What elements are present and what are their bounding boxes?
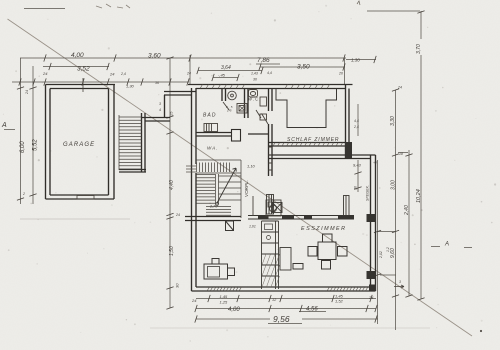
svg-text:-,45: -,45 <box>218 73 226 78</box>
svg-text:1,45: 1,45 <box>220 294 229 299</box>
svg-text:6,00: 6,00 <box>20 141 26 153</box>
svg-text:24: 24 <box>109 72 115 77</box>
svg-text:2,40: 2,40 <box>404 205 410 216</box>
svg-text:9,43: 9,43 <box>353 163 362 168</box>
svg-text:24: 24 <box>186 72 191 76</box>
svg-text:1,01: 1,01 <box>249 225 256 229</box>
svg-text:2,4: 2,4 <box>120 72 126 76</box>
svg-text:4,56: 4,56 <box>306 307 318 313</box>
svg-text:3,50: 3,50 <box>297 64 310 71</box>
svg-text:24: 24 <box>42 71 48 76</box>
svg-text:20: 20 <box>338 72 343 76</box>
svg-text:3,30: 3,30 <box>390 116 396 126</box>
svg-text:10,24: 10,24 <box>416 189 422 203</box>
svg-text:1,25: 1,25 <box>220 300 229 305</box>
svg-text:BAD: BAD <box>203 113 217 119</box>
svg-text:4,4: 4,4 <box>267 71 272 75</box>
svg-text:2,02: 2,02 <box>379 251 383 259</box>
svg-text:3: 3 <box>399 280 401 284</box>
svg-text:1,30: 1,30 <box>126 84 135 89</box>
svg-text:24: 24 <box>191 298 197 303</box>
svg-text:3,70: 3,70 <box>416 44 422 54</box>
svg-text:9,56: 9,56 <box>273 314 290 324</box>
svg-text:A: A <box>1 122 7 129</box>
svg-text:4,00: 4,00 <box>228 307 240 313</box>
svg-text:3,52: 3,52 <box>77 66 90 73</box>
svg-text:24: 24 <box>25 90 29 95</box>
svg-text:30: 30 <box>253 78 257 82</box>
svg-text:2,4: 2,4 <box>353 125 359 129</box>
svg-text:W.C.: W.C. <box>248 97 262 102</box>
svg-text:1,52: 1,52 <box>335 299 344 304</box>
svg-text:30: 30 <box>354 186 358 190</box>
svg-text:VORPL.: VORPL. <box>244 180 249 197</box>
svg-text:30: 30 <box>175 283 180 288</box>
svg-text:1,2: 1,2 <box>386 247 390 252</box>
svg-text:WA.: WA. <box>207 146 219 151</box>
svg-text:4,40: 4,40 <box>169 180 175 190</box>
svg-text:SPEISEK.: SPEISEK. <box>366 185 370 201</box>
svg-text:24: 24 <box>397 86 402 90</box>
svg-text:15: 15 <box>227 109 233 113</box>
svg-text:GARAGE: GARAGE <box>63 142 95 148</box>
svg-text:2,70: 2,70 <box>209 205 218 209</box>
svg-text:1,30: 1,30 <box>351 58 360 63</box>
svg-text:3: 3 <box>159 102 161 106</box>
svg-text:3,64: 3,64 <box>221 65 231 71</box>
svg-text:4: 4 <box>159 108 161 112</box>
svg-text:36: 36 <box>155 81 159 85</box>
svg-text:SCHLAF ZIMMER: SCHLAF ZIMMER <box>287 137 339 143</box>
svg-text:24: 24 <box>175 213 180 217</box>
svg-text:+2: +2 <box>373 161 377 165</box>
svg-text:4,00: 4,00 <box>71 52 84 59</box>
svg-text:7,86: 7,86 <box>257 57 270 64</box>
svg-text:ESSZIMMER: ESSZIMMER <box>301 226 347 232</box>
svg-text:1,43: 1,43 <box>251 72 258 76</box>
svg-text:24: 24 <box>368 295 374 300</box>
svg-text:2: 2 <box>22 192 25 196</box>
svg-text:5,52: 5,52 <box>33 139 39 151</box>
svg-text:18: 18 <box>399 152 403 156</box>
svg-text:4,4: 4,4 <box>354 119 359 123</box>
svg-text:25: 25 <box>169 111 174 117</box>
svg-text:1,50: 1,50 <box>169 246 175 256</box>
svg-text:9,60: 9,60 <box>390 248 396 258</box>
svg-text:3,60: 3,60 <box>148 53 161 60</box>
svg-text:A: A <box>444 242 449 248</box>
svg-text:3,00: 3,00 <box>391 180 397 190</box>
svg-text:1,10: 1,10 <box>247 164 256 169</box>
